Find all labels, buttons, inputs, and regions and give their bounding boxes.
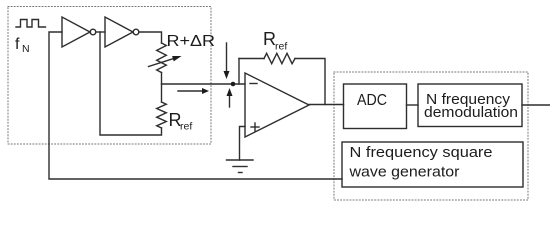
wire: between R+dR and Rref (node) [161,73,163,103]
svg-text:ADC: ADC [357,92,387,109]
resistor Rref (feedback) [264,53,295,63]
annotation arrow: signal direction right [178,90,203,92]
label Rref (divider) [169,110,193,133]
wire: Rref bottom feedback to U1 output [100,32,162,135]
wire: U2 output to top of R+dR [139,32,162,43]
label Rref (feedback) [263,29,287,53]
wire: ADC to demodulator [407,104,419,106]
block ADC [344,84,407,129]
op-amp U3 [245,73,309,137]
svg-text:f: f [15,36,20,53]
svg-text:ref: ref [275,41,287,53]
inverter U1 [62,17,90,47]
svg-text:N frequency square: N frequency square [350,145,493,161]
op-amp minus sign [250,83,257,85]
block N frequency square wave generator [342,142,523,187]
arrow of adjustable resistor [149,58,175,66]
dashed box: excitation network [8,7,211,145]
wire: demodulator output [522,104,550,106]
svg-text:ref: ref [180,121,192,133]
block N frequency demodulation [418,84,522,127]
wire: feedback connector up from node [238,59,240,85]
wire: node tap to op-amp inverting input [162,83,246,85]
annotation arrow: current down into node [226,43,228,71]
wire: U1 output to U2 input [96,31,105,33]
label R+dR [167,33,216,50]
dashed box: digital section [334,72,528,200]
wire: feedback top right segment and down to output [295,59,325,105]
svg-text:N: N [22,43,30,55]
resistor R+dR (adjustable) [157,43,167,73]
svg-text:demodulation: demodulation [424,105,518,121]
wire: op-amp output to ADC [309,104,344,106]
wire: input from generator to inverter 1 [49,32,342,179]
svg-text:wave generator: wave generator [348,165,459,181]
label fN [15,36,30,55]
op-amp plus sign [251,126,259,128]
node: summing junction dot [231,82,236,87]
annotation arrow: current up into node [229,96,231,107]
inverter U2 [105,17,133,47]
resistor Rref (divider) [157,102,167,128]
svg-text:R+ΔR: R+ΔR [167,33,216,50]
square-wave symbol [16,20,46,28]
ground [227,159,254,161]
wire: feedback top left segment [239,58,264,60]
wire: non-inverting input to ground [240,127,246,161]
